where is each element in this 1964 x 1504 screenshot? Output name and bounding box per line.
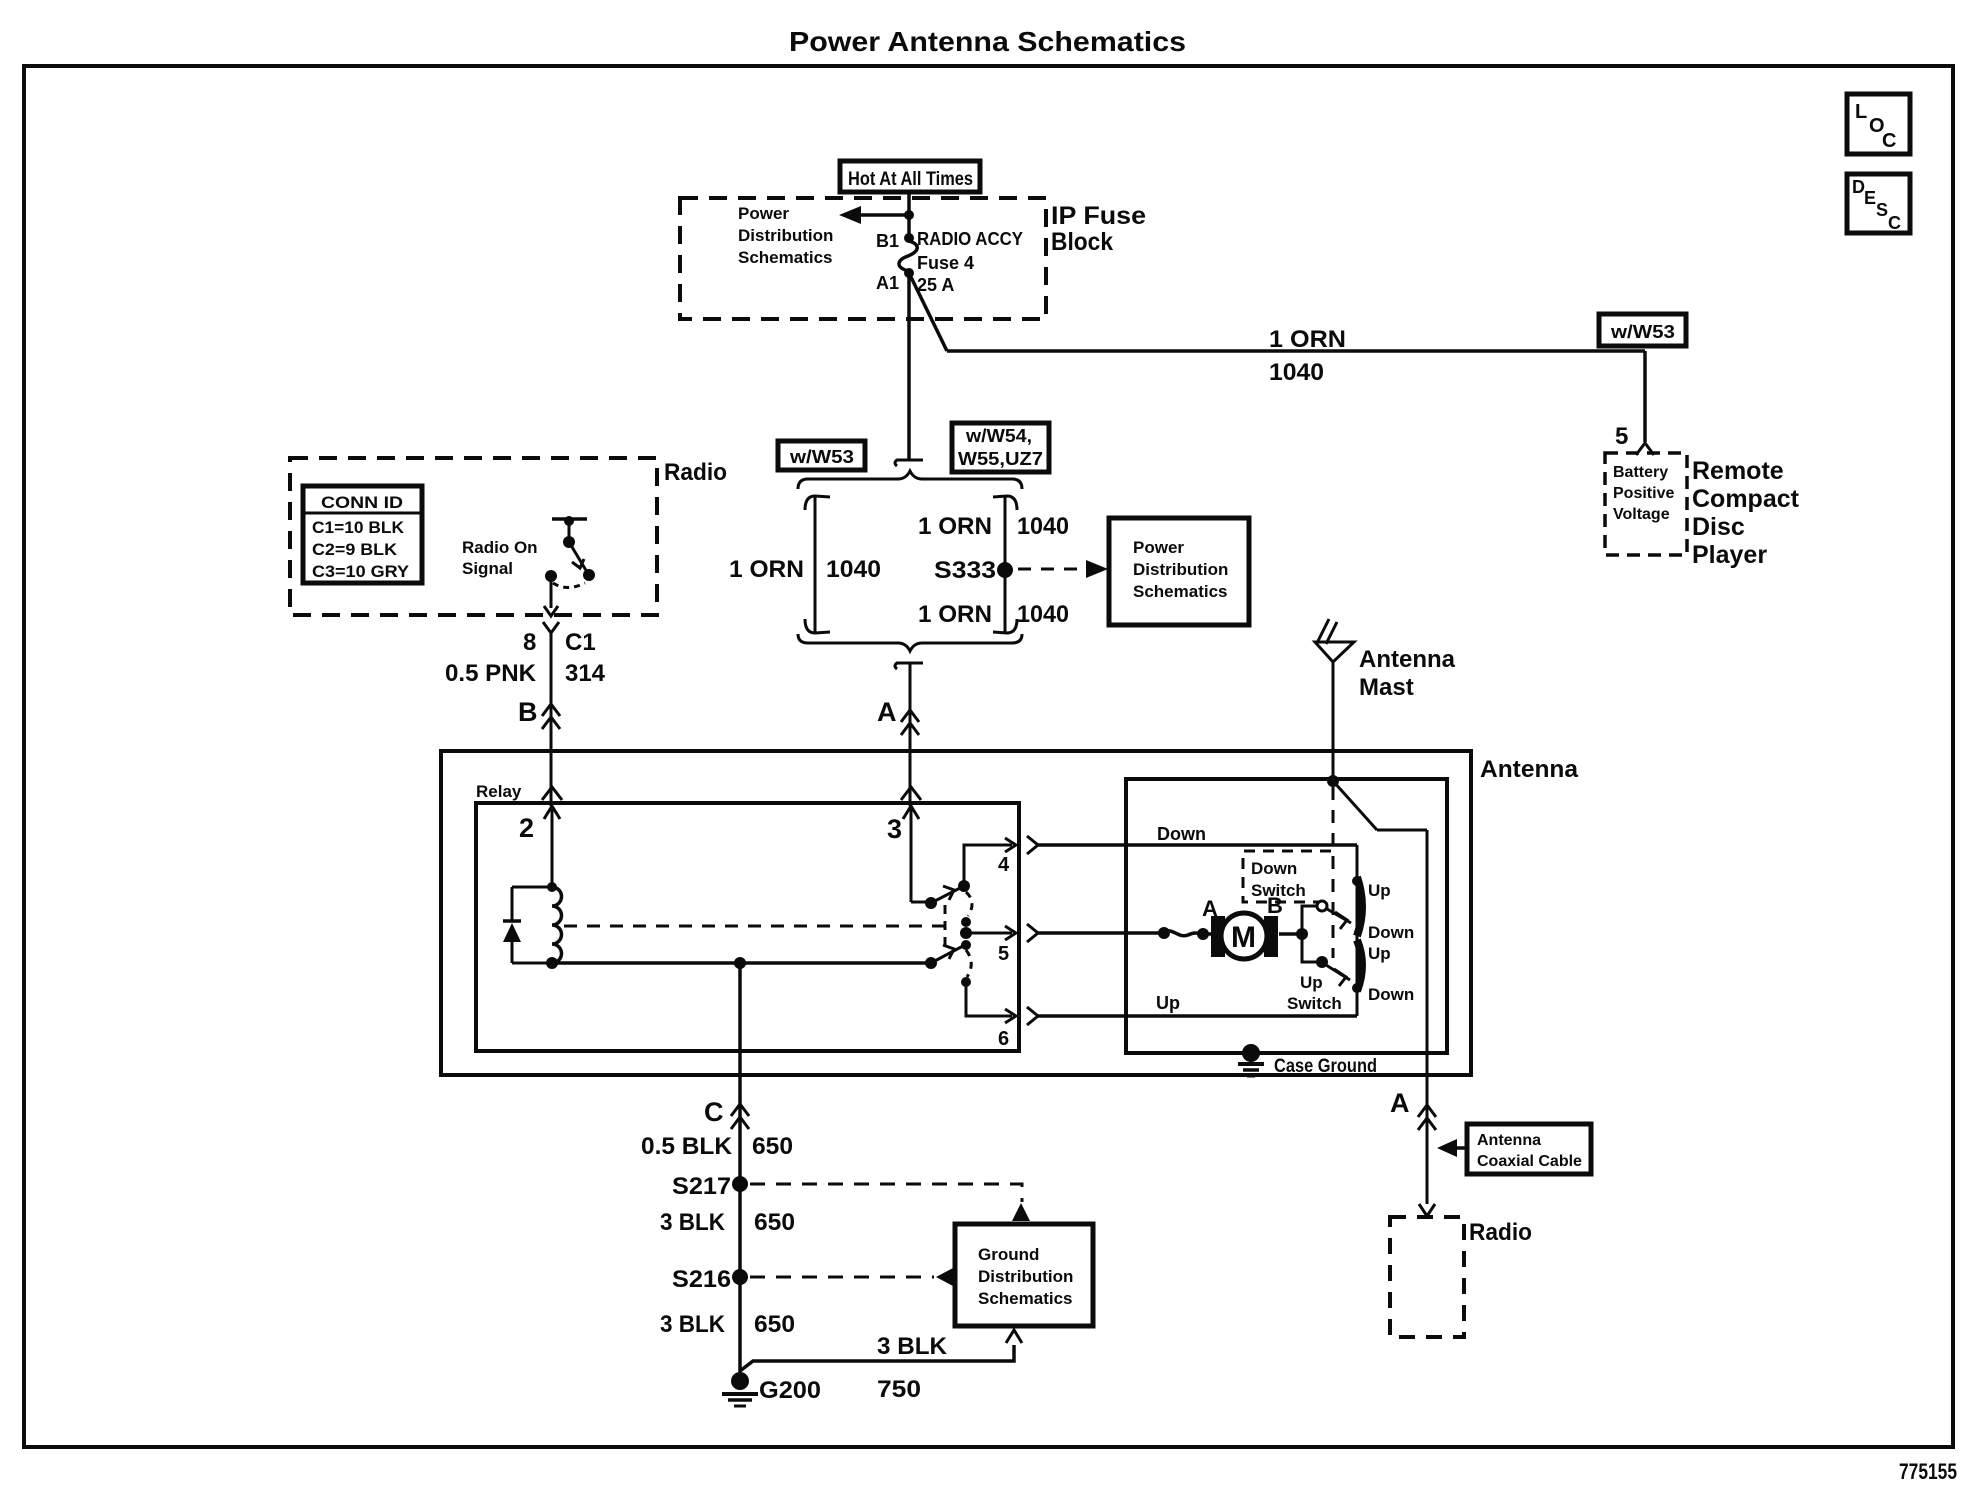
wire tick below brace bbox=[895, 663, 923, 669]
svg-text:0.5 PNK: 0.5 PNK bbox=[445, 660, 537, 687]
svg-text:A: A bbox=[1202, 896, 1218, 921]
DESC button box bbox=[1847, 174, 1910, 233]
motor M bbox=[1211, 913, 1278, 959]
in-line connector chevrons on wire A bbox=[901, 710, 919, 735]
wire B 0.5 PNK 314 from radio to relay bbox=[550, 633, 553, 806]
wire from relay pin 5 to motor bbox=[1038, 931, 1164, 935]
wire Down from relay pin 4 to limit switch plate bbox=[1038, 843, 1357, 847]
pin 5 of remote CD player bbox=[1615, 423, 1654, 455]
Remote Compact Disc Player dashed box (Battery Positive Voltage) bbox=[1605, 453, 1687, 555]
motor compartment box bbox=[1126, 779, 1447, 1053]
label Power Distribution Schematics (in IP fuse block) bbox=[738, 204, 833, 267]
svg-text:Disc: Disc bbox=[1692, 513, 1745, 541]
svg-text:Hot At All Times: Hot At All Times bbox=[848, 169, 973, 190]
svg-text:M: M bbox=[1231, 921, 1256, 954]
svg-text:Voltage: Voltage bbox=[1613, 506, 1670, 523]
svg-text:775155: 775155 bbox=[1899, 1459, 1957, 1484]
svg-text:1040: 1040 bbox=[1269, 359, 1324, 386]
Antenna assembly box bbox=[441, 751, 1471, 1075]
label IP Fuse Block bbox=[1051, 202, 1146, 256]
wire segment left 1 ORN 1040 bbox=[729, 496, 881, 633]
svg-text:Switch: Switch bbox=[1287, 994, 1342, 1013]
wire motor B to switches bbox=[1279, 928, 1308, 940]
svg-text:750: 750 bbox=[877, 1376, 921, 1403]
svg-text:1040: 1040 bbox=[826, 556, 881, 583]
ground G200 bbox=[722, 1372, 821, 1406]
connector brace top bbox=[798, 471, 1022, 489]
svg-text:E: E bbox=[1864, 188, 1876, 208]
relay pin 2 entry arrow bbox=[519, 806, 560, 887]
lower limit contact strip bbox=[1352, 940, 1362, 993]
svg-text:1 ORN: 1 ORN bbox=[1269, 326, 1346, 353]
svg-text:Up: Up bbox=[1156, 993, 1180, 1013]
wire label 3 BLK 650 (upper) bbox=[660, 1209, 795, 1236]
splice S216 bbox=[672, 1266, 748, 1293]
case ground symbol bbox=[1238, 1044, 1264, 1076]
wire diagonal from A1 to CD player feed bbox=[909, 273, 947, 351]
connector chevron at antenna case, pin 2 bbox=[542, 787, 562, 800]
svg-text:1040: 1040 bbox=[1017, 513, 1069, 540]
wire label 0.5 PNK 314 bbox=[445, 660, 606, 687]
relay pin 6 wire bbox=[961, 977, 1016, 1050]
svg-text:650: 650 bbox=[752, 1133, 793, 1160]
connector chevron pin 6 bbox=[1027, 1007, 1038, 1025]
svg-text:Player: Player bbox=[1692, 541, 1767, 569]
svg-text:Antenna: Antenna bbox=[1359, 646, 1456, 673]
label Up Switch bbox=[1287, 973, 1342, 1013]
in-line connector chevrons on coax wire bbox=[1418, 1105, 1436, 1130]
connector label w/W54, W55,UZ7 bbox=[952, 423, 1049, 472]
svg-text:Antenna: Antenna bbox=[1480, 756, 1579, 783]
wire from switch to radio pin 8 bbox=[544, 578, 558, 616]
svg-text:Power Antenna Schematics: Power Antenna Schematics bbox=[789, 26, 1186, 57]
lower movable contact arm bbox=[925, 945, 963, 969]
svg-text:Up: Up bbox=[1300, 973, 1323, 992]
Power Distribution Schematics box (right of S333) bbox=[1109, 518, 1249, 625]
svg-text:B: B bbox=[518, 697, 538, 727]
splice S333 bbox=[934, 557, 1013, 584]
svg-text:A: A bbox=[877, 697, 897, 727]
fixed contacts center bbox=[960, 917, 972, 950]
svg-text:3: 3 bbox=[887, 814, 902, 844]
svg-text:Schematics: Schematics bbox=[738, 248, 833, 267]
Ground Distribution Schematics box bbox=[955, 1224, 1093, 1326]
connector chevron pin 5 bbox=[1027, 924, 1038, 942]
pin 8 / connector C1 labels bbox=[523, 629, 596, 656]
up switch contact branch bbox=[1302, 934, 1350, 986]
wire coil common to ground C bbox=[552, 961, 931, 965]
svg-text:6: 6 bbox=[998, 1028, 1009, 1050]
Radio dashed box (top left) bbox=[290, 458, 657, 615]
upper movable contact arm bbox=[925, 880, 970, 909]
svg-text:A1: A1 bbox=[876, 273, 899, 293]
svg-text:Mast: Mast bbox=[1359, 674, 1414, 701]
svg-text:w/W54,: w/W54, bbox=[965, 426, 1032, 446]
svg-text:Case Ground: Case Ground bbox=[1274, 1056, 1377, 1077]
svg-text:1 ORN: 1 ORN bbox=[918, 601, 992, 628]
svg-text:Relay: Relay bbox=[476, 782, 522, 801]
radio connector half below box bbox=[543, 622, 559, 633]
svg-text:Ground: Ground bbox=[978, 1245, 1039, 1264]
svg-text:4: 4 bbox=[998, 854, 1010, 876]
svg-text:Down: Down bbox=[1368, 923, 1414, 942]
svg-text:C2=9 BLK: C2=9 BLK bbox=[312, 540, 398, 559]
dashed reference arrow from S333 bbox=[1018, 560, 1108, 578]
svg-text:S: S bbox=[1876, 200, 1888, 220]
relay pin 5 wire bbox=[966, 926, 1016, 965]
svg-text:0.5 BLK: 0.5 BLK bbox=[641, 1133, 733, 1160]
svg-text:B: B bbox=[1267, 893, 1283, 918]
svg-text:Battery: Battery bbox=[1613, 464, 1668, 481]
pin A1 bbox=[876, 268, 914, 293]
svg-text:RADIO ACCY: RADIO ACCY bbox=[917, 229, 1023, 249]
label Antenna Mast bbox=[1359, 646, 1456, 701]
junction mast to coax bbox=[1327, 775, 1339, 787]
wire end tick above connector brace bbox=[895, 460, 923, 466]
antenna mast symbol bbox=[1315, 619, 1354, 781]
svg-text:Compact: Compact bbox=[1692, 485, 1800, 513]
svg-text:Down: Down bbox=[1368, 985, 1414, 1004]
coax arrow into radio bbox=[1419, 1204, 1435, 1216]
CONN ID table bbox=[303, 486, 422, 583]
Antenna Coaxial Cable label box with arrow bbox=[1437, 1124, 1591, 1174]
wire from A1 down to connector brace bbox=[907, 273, 911, 460]
limit switch plate bar bbox=[1356, 845, 1359, 1016]
svg-text:1 ORN: 1 ORN bbox=[729, 556, 804, 583]
svg-text:A: A bbox=[1390, 1088, 1410, 1118]
svg-text:Remote: Remote bbox=[1692, 457, 1784, 485]
svg-text:3 BLK: 3 BLK bbox=[660, 1311, 726, 1338]
wire mast to radio coax A bbox=[1333, 781, 1427, 1204]
svg-text:1040: 1040 bbox=[1017, 601, 1069, 628]
svg-text:1 ORN: 1 ORN bbox=[918, 513, 992, 540]
svg-text:Positive: Positive bbox=[1613, 485, 1674, 502]
dashed link at contacts bbox=[944, 905, 947, 953]
wire label 3 BLK 650 (lower) bbox=[660, 1311, 795, 1338]
svg-text:W55,UZ7: W55,UZ7 bbox=[958, 449, 1043, 469]
svg-text:Antenna: Antenna bbox=[1477, 1132, 1541, 1149]
svg-text:2: 2 bbox=[519, 813, 534, 843]
svg-text:Distribution: Distribution bbox=[978, 1267, 1073, 1286]
wire label 0.5 BLK 650 bbox=[641, 1133, 793, 1160]
svg-text:650: 650 bbox=[754, 1311, 795, 1338]
svg-text:Radio: Radio bbox=[664, 459, 727, 486]
svg-text:L: L bbox=[1855, 101, 1867, 123]
Hot At All Times label box bbox=[840, 161, 980, 192]
dashed contact throw lower bbox=[966, 950, 971, 977]
in-line connector chevrons on wire B bbox=[542, 704, 560, 729]
relay pin 3 entry arrow bbox=[887, 806, 919, 902]
arrow to Power Distribution Schematics bbox=[839, 206, 909, 224]
svg-text:3 BLK: 3 BLK bbox=[877, 1333, 948, 1360]
wire 3 BLK 750 branch to ground distribution bbox=[740, 1330, 1022, 1403]
relay pin 4 wire bbox=[964, 838, 1016, 886]
svg-text:Fuse 4: Fuse 4 bbox=[917, 253, 974, 273]
svg-text:S333: S333 bbox=[934, 557, 996, 584]
relay clamp diode bbox=[503, 887, 552, 963]
svg-text:Radio On: Radio On bbox=[462, 538, 538, 557]
svg-text:Distribution: Distribution bbox=[738, 226, 833, 245]
connector chevron at antenna case, pin 3 bbox=[901, 787, 921, 800]
radio on signal switch bbox=[545, 516, 595, 588]
svg-text:G200: G200 bbox=[759, 1377, 821, 1404]
pin B1 bbox=[876, 231, 914, 251]
svg-text:25 A: 25 A bbox=[917, 275, 954, 295]
connector chevron pin 4 bbox=[1027, 836, 1038, 854]
svg-text:Schematics: Schematics bbox=[978, 1289, 1073, 1308]
wire down to CD player pin 5 bbox=[1643, 351, 1647, 442]
wire segment lower 1 ORN 1040 bbox=[918, 601, 1069, 628]
svg-text:C: C bbox=[1888, 213, 1901, 233]
wire Up from relay pin 6 to limit switch plate bbox=[1038, 1014, 1357, 1018]
in-line connector chevrons on wire C bbox=[731, 1104, 749, 1129]
svg-text:Power: Power bbox=[738, 204, 789, 223]
svg-text:Distribution: Distribution bbox=[1133, 560, 1228, 579]
svg-text:S216: S216 bbox=[672, 1266, 731, 1293]
Relay box bbox=[476, 803, 1019, 1051]
svg-text:B1: B1 bbox=[876, 231, 899, 251]
svg-text:314: 314 bbox=[565, 660, 606, 687]
motor feed flex lead bbox=[1158, 927, 1214, 940]
svg-text:C1: C1 bbox=[565, 629, 596, 656]
svg-text:C1=10 BLK: C1=10 BLK bbox=[312, 518, 405, 537]
svg-text:650: 650 bbox=[754, 1209, 795, 1236]
label Remote Compact Disc Player bbox=[1692, 457, 1800, 569]
svg-text:3 BLK: 3 BLK bbox=[660, 1209, 726, 1236]
label Radio On Signal bbox=[462, 538, 538, 578]
svg-text:C3=10 GRY: C3=10 GRY bbox=[312, 562, 410, 581]
svg-text:8: 8 bbox=[523, 629, 536, 656]
dashed reference from S216 to ground distribution bbox=[750, 1268, 953, 1286]
mast mechanical dashed link bbox=[1332, 787, 1335, 958]
Down Switch dashed box label bbox=[1243, 851, 1331, 902]
connector label w/W53 (right) bbox=[1599, 314, 1686, 346]
svg-text:Block: Block bbox=[1051, 228, 1113, 256]
svg-text:C: C bbox=[1882, 130, 1896, 152]
svg-text:S217: S217 bbox=[672, 1173, 731, 1200]
wire segment upper 1 ORN 1040 bbox=[918, 496, 1069, 633]
svg-text:C: C bbox=[704, 1097, 724, 1127]
svg-text:Radio: Radio bbox=[1469, 1219, 1532, 1246]
svg-text:5: 5 bbox=[1615, 423, 1628, 450]
LOC button box bbox=[1847, 94, 1910, 154]
svg-text:Schematics: Schematics bbox=[1133, 582, 1228, 601]
relay coil bbox=[546, 882, 562, 969]
svg-text:CONN ID: CONN ID bbox=[321, 493, 403, 512]
svg-text:w/W53: w/W53 bbox=[1610, 322, 1675, 342]
svg-text:5: 5 bbox=[998, 943, 1009, 965]
svg-text:IP Fuse: IP Fuse bbox=[1051, 202, 1146, 230]
svg-text:Up: Up bbox=[1368, 944, 1391, 963]
connector label w/W53 (center) bbox=[778, 441, 865, 470]
svg-text:w/W53: w/W53 bbox=[789, 447, 854, 467]
fuse F4 RADIO ACCY 25A bbox=[899, 229, 1023, 295]
dashed reference from S217 to ground distribution bbox=[750, 1184, 1030, 1221]
wire A down to relay pin 3 bbox=[909, 663, 912, 806]
Radio dashed box (bottom right) bbox=[1390, 1217, 1464, 1337]
wire 1 ORN 1040 to remote CD player bbox=[947, 326, 1645, 386]
junction at fuse feed bbox=[904, 210, 914, 220]
upper limit contact strip bbox=[1352, 876, 1362, 936]
svg-text:Down: Down bbox=[1157, 824, 1206, 844]
svg-text:Power: Power bbox=[1133, 538, 1184, 557]
splice S217 bbox=[672, 1173, 748, 1200]
dashed contact throw upper bbox=[966, 892, 972, 916]
IP Fuse Block dashed box bbox=[680, 198, 1046, 319]
wire C ground lead from relay bbox=[738, 963, 742, 1372]
svg-text:Coaxial Cable: Coaxial Cable bbox=[1477, 1153, 1582, 1170]
relay pin 3 to common contact bbox=[911, 901, 931, 904]
svg-text:Down: Down bbox=[1251, 859, 1297, 878]
junction C node in relay bbox=[734, 957, 746, 969]
connector brace bottom bbox=[798, 634, 1022, 651]
svg-text:Up: Up bbox=[1368, 881, 1391, 900]
relay armature dashed link bbox=[564, 925, 945, 928]
svg-text:Signal: Signal bbox=[462, 559, 513, 578]
wire from Hot At All Times to fuse B1 bbox=[907, 192, 911, 238]
down switch contact branch bbox=[1302, 901, 1351, 934]
